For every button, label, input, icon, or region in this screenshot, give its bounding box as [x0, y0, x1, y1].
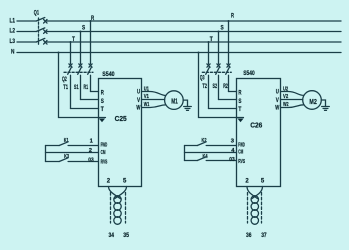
wire V output (right): [281, 99, 303, 101]
wire L2 rail: [17, 31, 341, 33]
wire T drop (left): [70, 42, 72, 64]
svg-text:U: U: [137, 88, 140, 95]
svg-text:L2: L2: [10, 28, 16, 35]
svg-text:R: R: [231, 12, 234, 19]
svg-text:5: 5: [261, 179, 265, 185]
svg-text:U1: U1: [144, 86, 150, 92]
svg-text:W: W: [136, 105, 140, 112]
svg-text:C26: C26: [250, 121, 262, 130]
fuse X on T drop (left): [69, 64, 72, 67]
svg-text:03: 03: [88, 157, 94, 163]
right twisted pair loops: [251, 196, 258, 204]
svg-text:S540: S540: [102, 71, 115, 78]
junction dot S tap right: [218, 31, 220, 33]
junction dot T tap right: [208, 41, 210, 43]
wire left ladder rail: [45, 146, 47, 162]
svg-text:R: R: [91, 15, 95, 22]
inverter U1 box outline: [99, 79, 142, 187]
svg-text:T: T: [238, 106, 241, 113]
svg-text:M2: M2: [309, 97, 316, 106]
svg-text:34: 34: [109, 232, 115, 239]
junction dot R tap left: [90, 20, 92, 22]
wire S2 to inverter S pin: [219, 99, 237, 101]
wire right shielded pair lead A: [247, 187, 258, 199]
breaker Q1 pole 1 X mark: [44, 20, 47, 24]
breaker Q1 pole 1 blade: [36, 18, 45, 22]
wire N drop to right inverter PE: [199, 53, 244, 118]
wire N drop to left inverter PE: [59, 53, 106, 118]
switch Q2 linkage dashed: [64, 71, 93, 73]
junction dot N tap right: [198, 52, 200, 54]
switch Q3 blade S: [216, 68, 220, 100]
svg-text:03: 03: [229, 157, 235, 163]
svg-text:S: S: [101, 98, 104, 105]
motor M2 circle: [303, 91, 322, 110]
svg-text:2: 2: [245, 179, 249, 185]
svg-text:T2: T2: [202, 83, 207, 90]
svg-text:V: V: [137, 97, 141, 104]
wire M2 to ground: [321, 100, 325, 107]
wire FWD line (left ladder): [46, 145, 99, 147]
wire V output (left): [142, 99, 165, 101]
svg-text:RVS: RVS: [101, 160, 108, 166]
wire RVS line (left ladder): [46, 161, 99, 163]
wire R2 to inverter R pin: [229, 91, 237, 93]
fuse X on R drop (left): [89, 64, 92, 67]
svg-text:R: R: [238, 89, 241, 96]
svg-text:36: 36: [246, 232, 252, 239]
wire L1 rail: [17, 20, 341, 22]
wire U output (right): [281, 92, 304, 96]
wire W output (left): [142, 105, 166, 108]
left inverter PE symbol: [100, 119, 105, 122]
wire M1 to ground: [183, 100, 187, 106]
fuse X on T drop (right): [207, 64, 210, 67]
svg-text:S: S: [82, 25, 85, 32]
contact K2 blade: [197, 142, 206, 146]
left shield dashed lines: [111, 193, 126, 224]
switch Q3 blade R: [226, 68, 230, 92]
wire S drop (left): [80, 32, 82, 64]
switch Q3 blade T: [206, 68, 210, 109]
wire R drop (left): [90, 21, 92, 64]
svg-text:V2: V2: [283, 94, 288, 100]
fuse X on R drop (right): [227, 64, 230, 67]
svg-text:35: 35: [123, 232, 129, 239]
wire R1 to inverter R pin: [91, 91, 99, 93]
svg-text:S540: S540: [243, 70, 255, 77]
contact K4 blade: [197, 157, 206, 161]
wire CM line (left ladder): [46, 152, 99, 154]
svg-text:W2: W2: [283, 102, 289, 108]
svg-text:R1: R1: [84, 84, 89, 91]
breaker Q1 linkage dashed: [38, 18, 40, 45]
svg-text:T: T: [210, 36, 213, 43]
fuse X on S drop (right): [217, 64, 220, 67]
wire S drop (right): [218, 32, 220, 64]
svg-text:T: T: [72, 36, 75, 43]
svg-text:CM: CM: [101, 150, 106, 156]
breaker Q1 pole 3 X mark: [44, 41, 47, 45]
junction dot T tap left: [70, 41, 72, 43]
wire R drop (right): [228, 21, 230, 64]
wire T1 to inverter T pin: [71, 108, 99, 110]
wire right shielded pair lead B: [252, 187, 263, 199]
wire right ladder rail: [184, 146, 186, 161]
wire U output (left): [142, 92, 166, 96]
switch Q2 blade S: [78, 68, 82, 100]
svg-text:R2: R2: [223, 83, 228, 90]
svg-text:N: N: [11, 49, 15, 56]
fuse X on S drop (left): [79, 64, 82, 67]
svg-text:R: R: [101, 89, 104, 96]
wire CM line (right ladder): [185, 152, 237, 154]
breaker Q1 pole 2 blade: [36, 28, 45, 32]
svg-text:3: 3: [231, 138, 235, 144]
motor M1 circle: [165, 91, 184, 110]
contact K3 blade: [59, 158, 68, 162]
junction dot N tap left: [58, 52, 60, 54]
right inverter PE symbol: [238, 119, 243, 122]
svg-text:W1: W1: [144, 102, 150, 108]
svg-text:37: 37: [261, 232, 267, 239]
junction dot S tap left: [80, 31, 82, 33]
svg-text:2: 2: [107, 179, 111, 185]
wire S1 to inverter S pin: [81, 99, 99, 101]
svg-text:Q2: Q2: [62, 76, 67, 83]
ground symbol at M2: [322, 107, 330, 111]
svg-text:C25: C25: [115, 114, 127, 123]
svg-text:L1: L1: [10, 18, 16, 25]
wire FWD line (right ladder): [185, 145, 237, 147]
breaker Q1 pole 3 blade: [36, 38, 45, 42]
svg-text:Q3: Q3: [200, 74, 205, 81]
svg-text:5: 5: [123, 179, 127, 185]
wire N rail: [17, 52, 341, 54]
svg-text:T: T: [101, 106, 104, 113]
svg-text:1: 1: [90, 138, 94, 144]
right shield dashed lines: [248, 193, 262, 224]
svg-text:U: U: [276, 88, 279, 95]
junction dot R tap right: [228, 20, 230, 22]
svg-text:FWD: FWD: [238, 142, 245, 148]
svg-text:S1: S1: [74, 84, 79, 91]
svg-text:S: S: [238, 98, 241, 105]
wire left shielded pair lead B: [115, 187, 127, 199]
svg-text:Q1: Q1: [34, 9, 40, 16]
svg-text:S: S: [221, 25, 224, 32]
svg-text:2: 2: [89, 148, 92, 154]
svg-text:U2: U2: [283, 86, 288, 92]
wire T drop (right): [208, 42, 210, 64]
svg-text:FWD: FWD: [101, 143, 108, 149]
left twisted pair loops: [114, 196, 121, 204]
breaker Q1 pole 2 X mark: [44, 30, 47, 34]
svg-text:T1: T1: [63, 84, 68, 91]
svg-text:CM: CM: [238, 150, 243, 156]
svg-text:S2: S2: [213, 83, 218, 90]
svg-text:M1: M1: [171, 97, 178, 106]
switch Q2 blade T: [68, 68, 72, 109]
wire W output (right): [281, 105, 304, 108]
svg-text:W: W: [275, 105, 279, 112]
ground symbol at M1: [184, 107, 192, 111]
wire L3 rail: [17, 41, 341, 43]
inverter U2 box outline: [237, 79, 281, 187]
svg-text:V: V: [276, 97, 280, 104]
wire left shielded pair lead A: [109, 187, 121, 199]
switch Q3 linkage dashed: [202, 71, 231, 73]
wire T2 to inverter T pin: [209, 108, 237, 110]
svg-text:RVS: RVS: [238, 159, 245, 165]
wire RVS line (right ladder): [185, 160, 237, 162]
contact K1 blade: [59, 142, 68, 146]
switch Q2 blade R: [88, 68, 92, 92]
svg-text:L3: L3: [10, 38, 16, 45]
svg-text:V1: V1: [144, 94, 150, 100]
